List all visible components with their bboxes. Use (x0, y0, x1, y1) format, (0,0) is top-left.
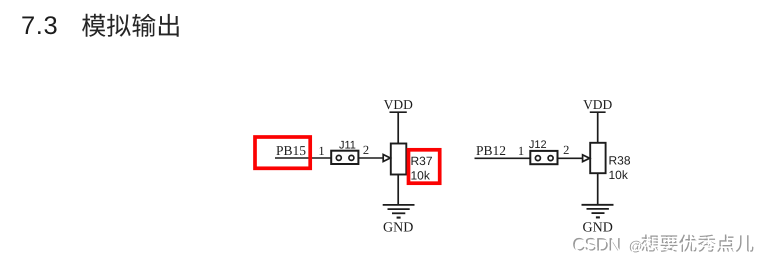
wire R37 to GND (397, 175, 399, 206)
wire PB12 to J12 pin1 (475, 157, 536, 159)
svg-text:VDD: VDD (583, 97, 612, 112)
wire R38 to GND (597, 173, 599, 205)
svg-text:PB12: PB12 (476, 143, 506, 158)
watermark username 想要优秀点儿 (641, 235, 755, 254)
resistor R37 body (391, 144, 407, 175)
connector J12 body (530, 151, 557, 164)
ground symbol (right) (582, 205, 614, 218)
svg-text:VDD: VDD (384, 97, 413, 112)
wire VDD to R37 (397, 112, 399, 143)
wiper arrow into R38 (583, 155, 590, 162)
resistor R38 body (590, 143, 605, 173)
label R38 value (609, 153, 631, 182)
power VDD (left) (384, 97, 413, 112)
svg-text:CSDN: CSDN (574, 236, 622, 256)
svg-text:@: @ (630, 240, 644, 255)
watermark CSDN (572, 234, 644, 256)
red highlight box around R37 (409, 150, 440, 183)
wiper arrow into R37 (383, 155, 390, 162)
ground symbol (left) (383, 205, 415, 218)
svg-text:GND: GND (583, 221, 613, 236)
red highlight box around PB15 (255, 137, 310, 168)
svg-text:1: 1 (518, 144, 524, 158)
svg-text:10k: 10k (609, 168, 629, 182)
svg-text:R38: R38 (609, 153, 631, 167)
svg-text:2: 2 (363, 143, 369, 157)
heading text 模拟输出 (82, 14, 179, 37)
svg-text:R37: R37 (411, 154, 433, 168)
wire PB15 to J11 pin1 (275, 157, 337, 159)
svg-text:PB15: PB15 (276, 143, 306, 158)
label R37 value (411, 154, 433, 183)
svg-text:1: 1 (318, 144, 324, 158)
svg-text:10k: 10k (411, 169, 431, 183)
svg-text:J12: J12 (529, 139, 547, 151)
wire J12 pin2 to arrow (553, 157, 583, 159)
svg-text:7.3: 7.3 (21, 12, 58, 40)
power VDD (right) (583, 97, 612, 112)
wire VDD to R38 (597, 112, 599, 143)
svg-text:J11: J11 (339, 139, 356, 151)
svg-text:2: 2 (563, 143, 569, 157)
svg-text:GND: GND (383, 220, 413, 235)
connector J11 body (331, 151, 358, 164)
wire J11 pin2 to arrow (354, 157, 384, 159)
